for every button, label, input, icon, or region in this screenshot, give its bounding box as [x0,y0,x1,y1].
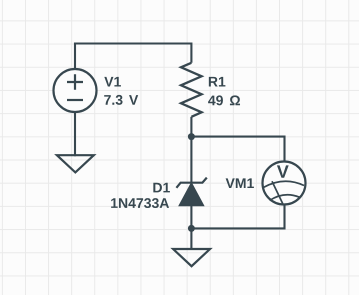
ground bottom [173,249,210,266]
label D1 [153,183,170,193]
node A junction dot [188,133,195,140]
label 1N4733A [111,198,169,208]
label VM1 [226,178,254,188]
node B junction dot [188,225,195,232]
wire R1 bottom lead to node A [190,117,192,137]
wire VM1 bottom to node B [191,205,284,229]
wire node A to D1 cathode [190,137,192,183]
zener diode D1 [176,178,206,206]
label 49 Ω [208,95,240,105]
wire top-left L from V1 top to R1 top [75,44,191,69]
ground under V1 [57,155,94,172]
label R1 [209,77,226,87]
resistor R1 [181,63,202,117]
wire node B to bottom ground [190,228,192,250]
label V inside voltmeter [277,165,289,177]
voltage source V1 [54,69,97,112]
voltmeter VM1 [263,162,306,205]
wire V1 bottom to ground [74,112,76,156]
wire node A to VM1 top [191,137,284,162]
label V1 [104,77,121,87]
wire D1 anode to node B [190,206,192,229]
label 7.3 V [104,95,138,105]
